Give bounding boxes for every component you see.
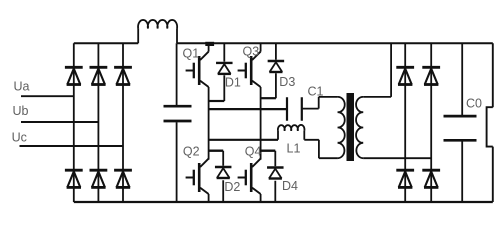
svg-text:Ua: Ua [14, 79, 30, 93]
svg-text:C1: C1 [308, 85, 324, 99]
svg-text:Q3: Q3 [243, 45, 260, 59]
svg-text:D3: D3 [279, 75, 295, 89]
svg-text:Q1: Q1 [183, 46, 200, 60]
svg-text:Uc: Uc [12, 130, 27, 144]
svg-text:C0: C0 [466, 97, 482, 111]
svg-text:D4: D4 [282, 179, 298, 193]
svg-text:D2: D2 [224, 180, 240, 194]
svg-text:L1: L1 [287, 142, 301, 156]
svg-text:Q2: Q2 [183, 144, 200, 158]
svg-text:Ub: Ub [13, 104, 29, 118]
svg-text:Q4: Q4 [245, 144, 262, 158]
svg-text:D1: D1 [225, 76, 241, 90]
